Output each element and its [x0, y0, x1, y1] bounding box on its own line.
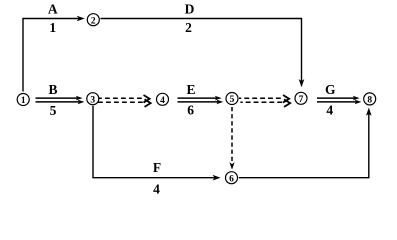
svg-text:4: 4 — [153, 181, 160, 196]
arrowheads of E — [215, 96, 222, 101]
svg-text:3: 3 — [90, 95, 95, 105]
wire activity G: double-line arrow node 7 to node 8 — [317, 98, 356, 102]
svg-text:B: B — [48, 82, 57, 97]
wire activity B: double-line arrow node 1 to node 3 — [36, 98, 80, 102]
wire activity A: elbow from node 1 up then right to node 2 — [23, 19, 80, 92]
svg-text:E: E — [186, 82, 195, 97]
svg-text:7: 7 — [299, 95, 304, 105]
wire activity E: double-line arrow node 4 to node 5 — [178, 98, 219, 102]
svg-text:1: 1 — [21, 96, 26, 106]
node 7 — [295, 92, 307, 105]
wire dummy activity node 3 to node 4: double dashed arrow — [97, 98, 145, 102]
wire dummy activity node 5 to node 7: double dashed arrow — [239, 98, 284, 102]
svg-text:2: 2 — [91, 16, 96, 26]
arrowhead into node 8 from below — [366, 108, 372, 116]
svg-text:6: 6 — [187, 103, 194, 118]
arrowheads of B — [76, 96, 83, 101]
arrowhead of F at node 6 — [213, 175, 221, 181]
node 1 — [17, 94, 29, 107]
node 8 — [364, 93, 376, 106]
node 3 — [87, 93, 99, 106]
svg-text:5: 5 — [230, 95, 235, 105]
svg-text:2: 2 — [185, 20, 192, 35]
svg-text:4: 4 — [326, 103, 333, 118]
arrowheads of G — [353, 96, 360, 101]
chevron arrowheads of dummy 3-4 — [144, 96, 150, 107]
node 4 — [157, 93, 169, 106]
chevron arrowheads of dummy 5-7 — [284, 96, 290, 107]
node 2 — [87, 14, 99, 27]
wire dummy activity node 5 to node 6: vertical dashed arrow — [231, 107, 233, 163]
node 5 — [226, 93, 238, 106]
svg-text:A: A — [48, 1, 58, 16]
wire activity D: from node 2 right then down to node 7 — [101, 19, 302, 82]
svg-text:G: G — [325, 82, 336, 97]
svg-text:1: 1 — [49, 20, 56, 35]
svg-text:D: D — [185, 1, 195, 16]
arrowhead of dummy 5-6 — [229, 162, 234, 170]
svg-text:6: 6 — [229, 174, 234, 184]
svg-text:F: F — [153, 160, 161, 175]
wire node 6 to node 8: right then up — [239, 113, 369, 178]
arrowhead of A at node 2 — [77, 16, 85, 22]
node 6 — [226, 172, 238, 185]
svg-text:5: 5 — [50, 103, 57, 118]
svg-text:8: 8 — [367, 96, 372, 106]
wire activity F: elbow from node 3 down then right to node 6 — [93, 106, 215, 178]
arrowhead of D at node 7 — [299, 79, 305, 87]
svg-text:4: 4 — [160, 96, 165, 106]
